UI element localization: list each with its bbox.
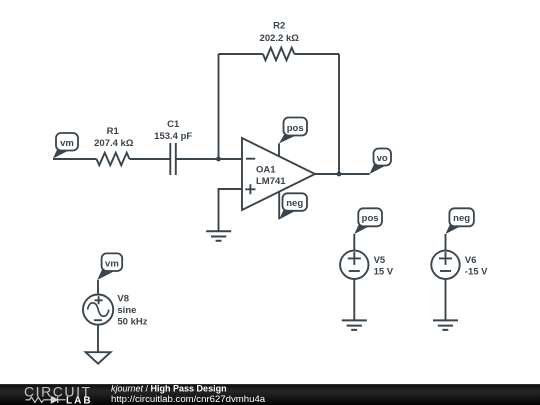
flag vm (input) [53,133,78,159]
voltage source V6 wire top [445,234,447,251]
svg-text:V5: V5 [374,255,386,266]
svg-text:vo: vo [377,153,388,164]
svg-text:V6: V6 [465,255,477,266]
svg-text:http://circuitlab.com/cnr627dv: http://circuitlab.com/cnr627dvmhu4a [111,394,266,405]
V8 minus symbol [94,319,102,321]
ground under V6 [433,320,458,330]
wire plus input to ground [219,189,243,231]
wire feedback top right [294,53,339,55]
svg-text:153.4 pF: 153.4 pF [154,131,192,142]
V5 plus symbol [348,252,361,265]
svg-text:207.4 kΩ: 207.4 kΩ [94,138,134,149]
flag vo (output) [370,149,392,175]
ground antenna under V8 [86,352,111,364]
svg-text:neg: neg [286,198,303,209]
svg-text:neg: neg [453,213,470,224]
svg-text:R2: R2 [273,21,285,32]
voltage source V8 wire top [97,280,99,295]
voltage source V8 circle [83,295,113,325]
svg-text:vm: vm [60,138,74,149]
V6 minus symbol [440,270,451,272]
V8 plus symbol [95,296,103,304]
junction node at output/feedback [337,172,342,177]
V5 wire bottom [353,279,355,320]
flag neg (V6) [446,208,474,234]
svg-text:OA1: OA1 [256,164,276,175]
flag neg (op-amp supply) [279,193,307,219]
svg-text:-15 V: -15 V [465,267,488,278]
svg-text:50 kHz: 50 kHz [117,317,147,328]
svg-text:vm: vm [105,259,119,270]
capacitor C1 [170,143,176,175]
V6 plus symbol [439,252,452,265]
junction node at C1/feedback [216,157,221,162]
wire feedback left vertical [218,54,220,159]
svg-text:C1: C1 [167,119,180,130]
wire op-amp output [315,173,370,175]
svg-text:R1: R1 [107,126,120,137]
svg-text:V8: V8 [117,294,129,305]
svg-text:pos: pos [287,123,304,134]
op-amp minus input symbol [246,158,255,160]
flag vm (V8) [97,253,122,280]
op-amp plus input symbol [245,184,255,194]
wire feedback top left [219,53,263,55]
op-amp pos supply pin [278,143,280,157]
wire input net vm to R1 [53,158,97,160]
resistor R2 [263,48,294,61]
voltage source V5 wire top [353,234,355,251]
resistor R1 [97,153,130,166]
svg-text:LM741: LM741 [256,176,286,187]
ground under op-amp plus input [206,231,231,241]
flag pos (op-amp supply) [279,118,307,144]
V5 minus symbol [349,270,360,272]
svg-text:LAB: LAB [66,396,93,405]
voltage source V5 circle [340,251,368,279]
voltage source V6 circle [431,251,459,279]
wire feedback right vertical [338,54,340,174]
svg-text:15 V: 15 V [374,267,394,278]
wire C1 to op-amp minus input [176,158,242,160]
V8 wire bottom [97,324,99,352]
wire R1 to C1 [130,158,171,160]
svg-text:202.2 kΩ: 202.2 kΩ [260,33,300,44]
V6 wire bottom [445,279,447,320]
svg-text:pos: pos [362,213,379,224]
CircuitLab logo resistor+diode glyph [26,397,66,403]
op-amp neg supply pin [278,192,280,219]
svg-text:sine: sine [117,305,136,316]
op-amp OA1 body [242,138,315,210]
ground under V5 [342,320,367,330]
flag pos (V5) [354,208,382,234]
svg-text:kjournet / High Pass Design: kjournet / High Pass Design [111,384,227,394]
V8 sine symbol [88,303,109,317]
